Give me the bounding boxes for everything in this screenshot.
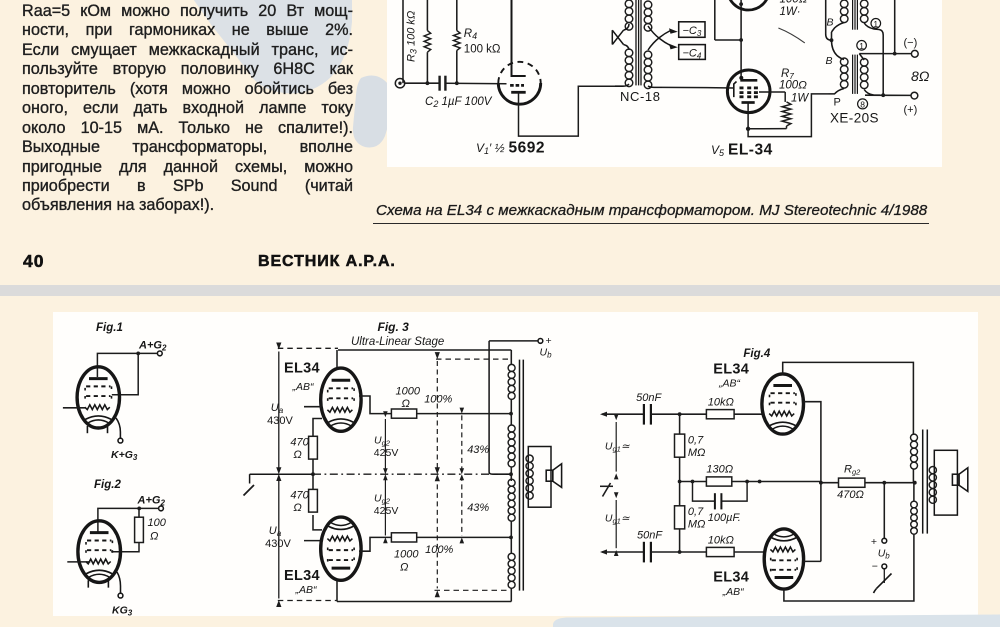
NC-18 secondary top winding (644, 1, 652, 31)
junction (758, 480, 762, 484)
wire input up (402, 0, 404, 83)
svg-text:100Ω: 100Ω (779, 80, 807, 92)
svg-text:8Ω: 8Ω (911, 68, 930, 84)
wire to Ub fig3 (489, 340, 538, 342)
measure arrow 100% top fig3 (435, 352, 440, 481)
wire to terminal fig2 (139, 507, 158, 509)
dashed ref top fig3 (436, 358, 511, 360)
junction (881, 93, 885, 97)
wire grid top fig4 with arrow (600, 412, 644, 417)
wire cathode to R470 top (313, 419, 322, 437)
input break slash fig3 (244, 485, 255, 496)
wire R4 top (456, 0, 458, 31)
svg-text:1W·: 1W· (780, 6, 801, 18)
fig3 primary winding section D (508, 553, 515, 588)
junction (509, 472, 513, 476)
junction (137, 507, 141, 511)
terminal A+G2 (157, 351, 162, 356)
wire to 0.7M top (679, 414, 681, 434)
tube fig2 triode (78, 521, 121, 588)
svg-text:(−): (−) (904, 37, 918, 49)
wire screen top fig4 (804, 402, 821, 483)
junction (136, 352, 140, 356)
wire grid bottom fig3 stepped (359, 537, 391, 551)
XE-20S lower secondary bottom lead (864, 90, 880, 96)
terminal minus (911, 50, 918, 57)
svg-text:C2 1µF 100V: C2 1µF 100V (425, 96, 493, 109)
svg-text:V5: V5 (711, 143, 725, 158)
fig3 secondary box (528, 447, 551, 508)
wire to tap bottom fig3 (417, 536, 511, 538)
wire grid bottom fig4 with arrow (600, 549, 644, 554)
svg-text:R4: R4 (464, 28, 477, 41)
wire V4 cathode to V5 grid column (740, 0, 742, 80)
terminal K+G3 (118, 438, 123, 443)
fig4 secondary box (934, 450, 957, 515)
resistor R7 100 Ohm (782, 102, 791, 126)
XE-20S lower secondary winding (860, 59, 868, 89)
wire heater left fig1 (63, 407, 86, 409)
junction (455, 81, 459, 85)
break symbol fig4 (600, 483, 613, 497)
measure arrow Ug1 top fig4 (614, 414, 619, 479)
junction (739, 2, 743, 6)
terminal Ub plus fig4 (882, 538, 887, 543)
wire anode top fig1 (97, 353, 138, 377)
svg-text:NC-18: NC-18 (620, 89, 661, 104)
wire cathode to terminal fig1 (116, 418, 120, 438)
fig3 primary winding section B (508, 425, 515, 467)
wire to tap top fig3 (417, 413, 511, 415)
wire cap to resistor top fig4 (651, 413, 707, 415)
circled 8 (858, 99, 868, 110)
wire heater left fig2 (67, 561, 90, 563)
tube EL34 top fig4 (762, 374, 804, 434)
resistor 10k top fig4 (706, 410, 734, 419)
terminal KG3 (118, 593, 123, 598)
wire NC-18 secondary to V5 grid (662, 86, 734, 89)
XE-20S lower primary bottom lead (829, 89, 845, 94)
NC-18 primary bottom lead (615, 84, 629, 86)
fig4 primary top winding (911, 434, 918, 469)
svg-text:R3 100 kΩ: R3 100 kΩ (406, 11, 419, 62)
resistor 100 Ohm fig2 (135, 517, 144, 542)
tube EL34 bottom fig3 (321, 517, 361, 580)
dashed bottom rail fig3 (278, 600, 337, 602)
transformer XE-20S upper core (853, 0, 858, 30)
terminal Ub fig3 (538, 339, 543, 344)
terminal Ub minus fig4 (882, 564, 887, 569)
node box -C3 (679, 22, 705, 38)
svg-text:B: B (827, 17, 834, 29)
svg-text:1: 1 (859, 41, 864, 51)
svg-text:B: B (826, 55, 833, 67)
resistor 0.7M bottom fig4 (675, 506, 685, 529)
circled 1 upper (871, 19, 881, 29)
wire plate into tube fig3 top (336, 350, 338, 369)
svg-text:V1′ ½: V1′ ½ (476, 141, 505, 156)
svg-text:(+): (+) (904, 104, 918, 116)
junction (746, 127, 750, 131)
junction (426, 81, 430, 85)
input terminal J1 (395, 79, 404, 88)
junction (913, 481, 917, 485)
wire R3 top (426, 0, 428, 31)
svg-text:XE-20S: XE-20S (830, 111, 879, 126)
junction (311, 472, 315, 476)
measure arrow Ug2 top fig3 (383, 411, 388, 480)
dashed top rail fig3 (278, 347, 338, 349)
svg-text:−C3: −C3 (683, 25, 702, 38)
capacitor 50nF top fig4 (644, 404, 651, 425)
svg-text:100Ω: 100Ω (780, 0, 808, 6)
measure arrow 43% top fig3 (460, 408, 465, 481)
NC-18 secondary crossover to -C3 -C4 (648, 26, 678, 50)
junction (509, 412, 513, 416)
resistor 470 Ohm top fig3 (309, 436, 318, 459)
transformer fig4 core (923, 430, 928, 534)
wire cap to resistor bottom fig4 (651, 551, 707, 553)
wire screen bottom fig4 (804, 560, 821, 562)
bypass capacitor 100uF fig4 (691, 480, 749, 510)
fig3 primary winding section C (508, 479, 515, 521)
junction (830, 38, 834, 42)
capacitor C2 (440, 76, 446, 91)
XE-20S lower primary top lead (832, 40, 845, 59)
resistor 470 Ohm bottom fig3 (309, 489, 318, 512)
NC-18 primary tap symbol (612, 24, 629, 50)
wire heater lead fig3 bottom (304, 540, 321, 542)
wire upper secondary to plus (882, 35, 884, 95)
wire plate bottom fig4 to transformer (784, 534, 914, 601)
NC-18 secondary bottom lead (648, 86, 662, 87)
wire to minus terminal (859, 53, 911, 55)
wire grid fig2 (111, 543, 139, 552)
wire R470 to tube bottom fig3 (313, 515, 322, 530)
junction (745, 480, 749, 484)
svg-text:100 kΩ: 100 kΩ (464, 44, 501, 56)
svg-text:−C4: −C4 (683, 47, 702, 60)
wire C2 to V1 grid (445, 82, 506, 85)
wire 130 to screen column (732, 481, 821, 483)
XE-20S lower secondary top lead (859, 54, 864, 60)
junction (678, 550, 682, 554)
NC-18 primary bottom winding (625, 49, 633, 87)
speaker fig4 (952, 468, 967, 492)
transformer NC-18 core (636, 0, 641, 85)
resistor 0.7M top fig4 (675, 434, 685, 457)
dashed ref bottom fig3 (435, 589, 509, 591)
junction (678, 412, 682, 416)
tube EL34 top fig3 (321, 368, 361, 431)
NC-18 secondary bottom winding (644, 51, 652, 89)
wire to Ub terminals fig4 (883, 483, 885, 539)
wire from -C boxes column up (714, 0, 716, 40)
measure arrow 43% bottom fig3 (460, 468, 465, 543)
svg-text:EL-34: EL-34 (728, 142, 773, 159)
wire plate top fig4 to transformer (783, 362, 914, 429)
capacitor 50nF bottom fig4 (644, 542, 651, 563)
transformer XE-20S lower core (853, 55, 858, 94)
input wire fig3 (250, 473, 313, 475)
wire resistor to tube top fig4 (734, 413, 762, 415)
wire input to C2 (405, 82, 440, 84)
wire anode top fig2 (98, 508, 139, 532)
wire minus from top (894, 0, 896, 54)
wire Rg2 to center tap (865, 482, 915, 484)
wire grid fig1 (112, 353, 138, 394)
wire resistor top fig2 (138, 508, 140, 517)
wire cathode to terminal fig2 (117, 572, 121, 593)
speaker fig3 (546, 464, 561, 488)
watermark wedge bottom right (0, 296, 1000, 627)
wire V5 to R7 (770, 91, 785, 93)
XE-20S upper secondary winding (860, 0, 868, 23)
fig4 primary bottom winding (911, 501, 918, 534)
junction (882, 481, 886, 485)
wire plate bottom fig3 (336, 580, 338, 601)
tube EL34 bottom fig4 (764, 529, 803, 589)
measure arrow Ua top fig3 (276, 343, 281, 482)
fig3 primary winding section A (508, 364, 515, 399)
XE-20S lower primary winding (840, 58, 848, 88)
wire heater lead fig3 top (304, 406, 321, 408)
resistor R3 100k (424, 31, 431, 53)
junction (691, 480, 695, 484)
node box -C4 (679, 45, 706, 61)
wire to Rg2 (821, 482, 839, 484)
NC-18 primary top winding (625, 0, 633, 30)
tube fig1 triode (77, 367, 119, 433)
wire R4 bottom (456, 50, 458, 83)
wire to 130 Ohm (680, 481, 707, 483)
fig4 secondary winding (929, 467, 936, 504)
wire B upper from top (825, 0, 827, 34)
center axis dash-dot fig3 (313, 473, 511, 475)
junction (678, 480, 682, 484)
svg-text:5692: 5692 (509, 140, 545, 157)
wire V1 cathode to NC-18 primary (519, 86, 616, 136)
watermark blob top (0, 0, 1000, 285)
svg-text:P: P (834, 97, 841, 109)
junction (739, 38, 743, 42)
wire resistor to tube bottom fig4 (734, 551, 764, 553)
svg-text:1: 1 (873, 19, 878, 29)
junction (893, 52, 897, 56)
stray scan line (778, 28, 804, 43)
measure arrow Ua bottom fig3 (276, 467, 281, 607)
wire grid top fig3 stepped (359, 396, 391, 414)
junction (819, 481, 823, 485)
wire and slash below minus fig4 (874, 569, 892, 593)
XE-20S upper primary bottom lead (832, 23, 845, 33)
XE-20S upper secondary bottom lead (864, 23, 883, 35)
tube V4 partial top (727, 0, 769, 10)
transformer fig3 core (520, 360, 524, 591)
tube V5 EL-34 (727, 70, 770, 129)
measure arrow Ug1 bottom fig4 (614, 492, 619, 556)
resistor Rg2 470 Ohm (839, 478, 865, 487)
wire to terminal fig1 (138, 352, 157, 354)
wire Ub down to center tap (488, 341, 490, 472)
tube V1 half 5692 (498, 0, 540, 104)
svg-text:8: 8 (860, 100, 865, 110)
circled 1 lower (857, 41, 867, 51)
resistor 1000 Ohm bottom fig3 (391, 533, 416, 542)
wire to plus terminal (865, 94, 911, 96)
fig3 secondary winding (526, 455, 533, 499)
measure arrow Ug2 bottom fig3 (383, 468, 388, 543)
wire R7 bottom to cathode (748, 128, 786, 130)
terminal A+G2 fig2 (159, 506, 164, 511)
resistor 1000 Ohm top fig3 (391, 409, 416, 418)
wire R3 bottom (426, 52, 428, 83)
resistor 130 Ohm fig4 (706, 477, 731, 486)
measure arrow 100% bottom fig3 (435, 467, 440, 597)
junction (509, 536, 513, 540)
svg-text:1W: 1W (791, 93, 809, 105)
wire screen column fig4 (820, 483, 822, 562)
wire cathode return to XE-20S P (748, 94, 828, 137)
wire plate bottom rail fig3 (337, 601, 511, 603)
resistor 10k bottom fig4 (706, 547, 734, 556)
wire to V5 plate column (715, 39, 741, 41)
resistor R4 100k (454, 31, 461, 51)
wire plate top rail fig3 (338, 349, 511, 351)
XE-20S upper primary winding (840, 0, 848, 23)
terminal plus (911, 92, 918, 99)
